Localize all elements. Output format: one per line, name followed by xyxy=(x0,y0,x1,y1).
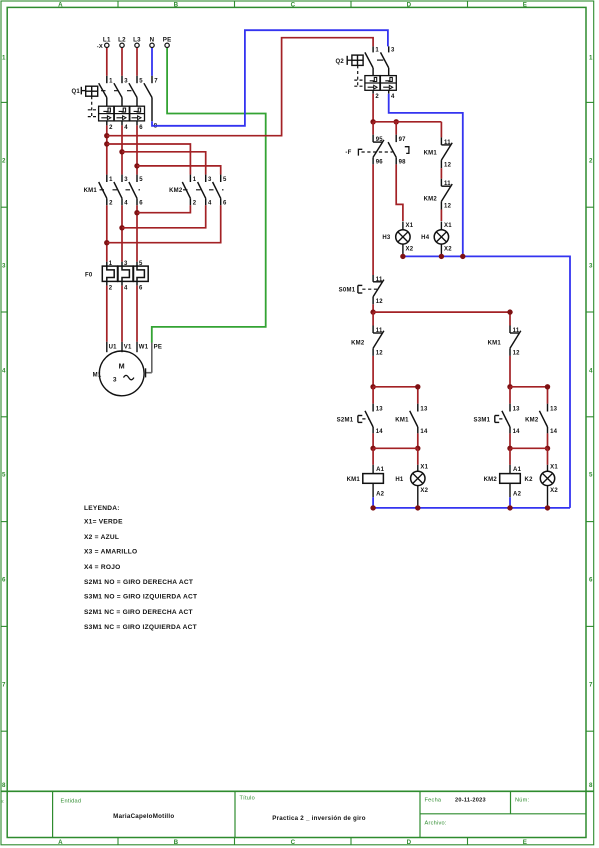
svg-text:4: 4 xyxy=(208,201,212,207)
svg-text:3: 3 xyxy=(124,177,128,183)
svg-text:95: 95 xyxy=(376,137,384,143)
wire Q2-4 neutral to lamp rail xyxy=(389,94,463,257)
svg-text:KM1: KM1 xyxy=(347,477,361,483)
svg-text:11: 11 xyxy=(444,140,451,146)
junction L2 to KM2-3 xyxy=(119,149,124,154)
svg-text:Q1: Q1 xyxy=(71,89,80,95)
wire KM1-14 to coil bar xyxy=(417,433,419,448)
auxiliary contact KM1 11-12 NC interlock xyxy=(488,326,521,357)
svg-text:6: 6 xyxy=(139,125,143,131)
svg-text:A2: A2 xyxy=(513,491,522,497)
svg-text:3: 3 xyxy=(589,262,593,269)
svg-text:A: A xyxy=(58,2,63,9)
svg-text:X2 = AZUL: X2 = AZUL xyxy=(84,534,119,541)
wire coil bar right xyxy=(510,447,548,449)
pushbutton S3M1 NO xyxy=(474,404,521,435)
junction left split right xyxy=(415,384,420,389)
svg-text:KM1: KM1 xyxy=(488,340,502,346)
svg-text:3: 3 xyxy=(113,376,117,383)
indicator lamp H3 xyxy=(382,222,413,257)
junction H4 rail xyxy=(439,254,444,259)
junction F 97 branch xyxy=(394,119,399,124)
junction L3 to KM2-5 xyxy=(134,163,139,168)
wire KM2-14 to coil bar right xyxy=(547,433,549,448)
wire KM1 interlock to right split xyxy=(509,356,511,387)
wire F0-2 to motor U1 xyxy=(106,286,108,342)
svg-text:E: E xyxy=(523,839,527,846)
svg-text:X4 = ROJO: X4 = ROJO xyxy=(84,564,121,571)
svg-text:4: 4 xyxy=(124,285,128,291)
svg-text:L3: L3 xyxy=(133,36,141,43)
indicator lamp K2 xyxy=(525,448,559,508)
junction coil bar left 1 xyxy=(370,446,375,451)
svg-text:11: 11 xyxy=(376,277,383,283)
junction L1 control tap xyxy=(104,133,109,138)
svg-text:Entidad: Entidad xyxy=(61,799,82,805)
svg-text:N: N xyxy=(150,36,155,43)
svg-text:KM2: KM2 xyxy=(424,196,438,202)
wire lamp neutral rail xyxy=(403,256,570,508)
wire L1 terminal to Q1 pin 1 xyxy=(106,48,108,76)
svg-text:KM2: KM2 xyxy=(169,188,183,194)
junction L1/KM2-6 xyxy=(104,240,109,245)
svg-text:6: 6 xyxy=(139,285,143,291)
svg-text:8: 8 xyxy=(589,782,593,789)
svg-text:5: 5 xyxy=(139,78,143,84)
svg-text:1: 1 xyxy=(2,54,6,61)
junction Q2 neutral rail xyxy=(460,254,465,259)
junction L3/KM2-2 xyxy=(134,210,139,215)
svg-text:a:: a: xyxy=(0,799,4,804)
circuit breaker Q1 xyxy=(71,76,158,131)
svg-text:1: 1 xyxy=(193,177,197,183)
svg-text:L1: L1 xyxy=(103,36,111,43)
svg-text:-F: -F xyxy=(345,150,351,156)
auxiliary contact KM2 11-12 NC xyxy=(424,179,453,210)
svg-text:S3M1 NO = GIRO IZQUIERDA ACT: S3M1 NO = GIRO IZQUIERDA ACT xyxy=(84,594,197,601)
svg-text:4: 4 xyxy=(589,367,593,374)
svg-text:14: 14 xyxy=(420,429,428,435)
terminal PE xyxy=(163,36,172,47)
svg-text:4: 4 xyxy=(124,125,128,131)
svg-text:A2: A2 xyxy=(376,491,385,497)
svg-text:1: 1 xyxy=(375,48,379,54)
svg-text:12: 12 xyxy=(376,350,384,356)
svg-text:7: 7 xyxy=(589,681,593,688)
svg-text:3: 3 xyxy=(391,48,395,54)
terminal strip -X xyxy=(97,44,103,50)
wire Q1-4 down L2 column xyxy=(121,125,123,174)
junction right split xyxy=(507,384,512,389)
svg-text:2: 2 xyxy=(109,201,113,207)
svg-text:KM1: KM1 xyxy=(395,417,409,423)
svg-text:5: 5 xyxy=(589,471,593,478)
svg-text:Practica 2 _ inversión de giro: Practica 2 _ inversión de giro xyxy=(272,815,365,822)
svg-text:X1: X1 xyxy=(444,223,452,229)
svg-text:1: 1 xyxy=(109,177,113,183)
svg-text:5: 5 xyxy=(2,471,6,478)
wire KM1-12 to KM2-11 xyxy=(440,168,442,179)
svg-text:H1: H1 xyxy=(395,477,404,483)
svg-text:D: D xyxy=(407,839,412,846)
contactor coil KM2 xyxy=(484,448,522,508)
svg-text:M: M xyxy=(119,361,125,370)
svg-text:C: C xyxy=(291,839,296,846)
svg-text:C: C xyxy=(291,2,296,9)
wire Q1-8 neutral to Q2 pin 3 xyxy=(152,30,388,126)
svg-text:Archivo:: Archivo: xyxy=(425,821,447,827)
terminal L1 xyxy=(103,36,111,47)
junction interlock node right xyxy=(507,309,512,314)
svg-text:14: 14 xyxy=(376,429,384,435)
svg-text:A1: A1 xyxy=(513,467,522,473)
wire bottom neutral rail xyxy=(373,507,570,509)
wire KM1-2 down to F0-1 xyxy=(106,205,108,261)
svg-text:4: 4 xyxy=(124,201,128,207)
svg-text:LEYENDA:: LEYENDA: xyxy=(84,505,120,512)
junction L1 to KM2-1 xyxy=(104,141,109,146)
svg-text:2: 2 xyxy=(109,285,113,291)
junction interlock node left xyxy=(370,309,375,314)
svg-text:H4: H4 xyxy=(421,235,430,241)
contactor KM1 power contacts xyxy=(84,175,144,207)
wire L2 terminal to Q1 pin 3 xyxy=(121,48,123,76)
svg-text:3: 3 xyxy=(208,177,212,183)
svg-text:KM2: KM2 xyxy=(525,417,539,423)
svg-text:X1: X1 xyxy=(420,465,428,471)
svg-text:7: 7 xyxy=(2,681,6,688)
auxiliary contact KM1 11-12 NC xyxy=(424,137,453,168)
wire F-96 down to S0M1 xyxy=(372,164,374,275)
contactor KM2 power contacts xyxy=(169,175,227,207)
svg-text:X2: X2 xyxy=(406,247,414,253)
wire left split bar xyxy=(373,387,418,404)
junction control phase node xyxy=(370,119,375,124)
svg-text:A: A xyxy=(58,839,63,846)
svg-text:PE: PE xyxy=(154,345,163,351)
indicator lamp H4 xyxy=(421,222,452,257)
svg-text:3: 3 xyxy=(2,262,6,269)
svg-text:S2M1: S2M1 xyxy=(337,417,354,423)
svg-text:X1: X1 xyxy=(406,223,414,229)
svg-text:L2: L2 xyxy=(118,36,126,43)
wire interlock node down left xyxy=(372,312,374,325)
svg-text:F0: F0 xyxy=(85,273,93,279)
thermal overload relay F0 xyxy=(85,261,148,291)
terminal L3 xyxy=(133,36,141,47)
junction rail K2 xyxy=(545,505,550,510)
svg-text:D: D xyxy=(407,2,412,9)
svg-text:1: 1 xyxy=(589,54,593,61)
pushbutton S2M1 NO xyxy=(337,404,384,435)
wire PE terminal to motor PE xyxy=(152,48,266,343)
svg-text:Q2: Q2 xyxy=(335,59,344,65)
svg-text:97: 97 xyxy=(399,137,407,143)
svg-text:6: 6 xyxy=(223,201,227,207)
wire F0-6 to motor W1 xyxy=(136,286,138,342)
svg-text:6: 6 xyxy=(2,576,6,583)
svg-text:M1: M1 xyxy=(93,373,102,379)
svg-text:S2M1 NO = GIRO DERECHA ACT: S2M1 NO = GIRO DERECHA ACT xyxy=(84,579,193,586)
wire S2M1-14 to coil bar xyxy=(372,433,374,448)
wire KM2 interlock to left split xyxy=(372,356,374,387)
svg-text:6: 6 xyxy=(139,201,143,207)
wire S3M1-14 to coil bar right xyxy=(509,433,511,448)
wire left split down xyxy=(372,387,374,404)
contactor coil KM1 xyxy=(347,448,385,508)
svg-text:2: 2 xyxy=(193,201,197,207)
svg-text:KM2: KM2 xyxy=(484,477,498,483)
svg-text:1: 1 xyxy=(109,78,113,84)
svg-text:E: E xyxy=(523,2,527,9)
wire L1 tap to Q2 pin 1 xyxy=(107,38,373,136)
auxiliary contact KM2 13-14 NO xyxy=(525,404,558,435)
svg-text:2: 2 xyxy=(109,125,113,131)
svg-text:96: 96 xyxy=(376,159,384,165)
svg-text:4: 4 xyxy=(2,367,6,374)
terminal N xyxy=(150,36,155,47)
svg-text:5: 5 xyxy=(223,177,227,183)
wire KM2-6 to L1 column xyxy=(107,205,221,242)
svg-text:11: 11 xyxy=(444,181,451,187)
svg-text:K2: K2 xyxy=(525,477,534,483)
svg-text:S3M1 NC = GIRO IZQUIERDA ACT: S3M1 NC = GIRO IZQUIERDA ACT xyxy=(84,624,197,631)
svg-text:H3: H3 xyxy=(382,235,391,241)
svg-text:6: 6 xyxy=(589,576,593,583)
svg-text:Núm:: Núm: xyxy=(515,798,530,804)
svg-text:S3M1: S3M1 xyxy=(474,417,491,423)
terminal L2 xyxy=(118,36,126,47)
svg-text:X3 = AMARILLO: X3 = AMARILLO xyxy=(84,549,137,556)
wire KM1-4 down to F0-3 xyxy=(121,205,123,261)
junction coil bar right 1 xyxy=(507,446,512,451)
wire F0-4 to motor V1 xyxy=(121,286,123,342)
svg-text:KM1: KM1 xyxy=(424,150,438,156)
wire interlock node to right branch xyxy=(373,312,510,325)
wire F-98 to lamp H3 xyxy=(396,164,403,221)
junction rail KM2 coil xyxy=(507,505,512,510)
wire S0M1-12 to interlock node xyxy=(372,304,374,312)
wire KM2-2 to L3 column xyxy=(137,205,190,212)
junction rail H1 xyxy=(415,505,420,510)
svg-text:11: 11 xyxy=(513,328,520,334)
svg-text:Título: Título xyxy=(240,796,256,802)
svg-text:U1: U1 xyxy=(109,345,118,351)
svg-text:B: B xyxy=(174,839,179,846)
wire L2 to KM2 pin 3 xyxy=(122,152,206,175)
svg-text:13: 13 xyxy=(376,407,384,413)
indicator lamp H1 xyxy=(395,448,428,508)
svg-text:12: 12 xyxy=(444,204,452,210)
wire control phase bus xyxy=(373,122,441,138)
svg-text:A1: A1 xyxy=(376,467,385,473)
svg-text:13: 13 xyxy=(513,407,521,413)
svg-text:X2: X2 xyxy=(550,488,558,494)
svg-text:MariaCapeloMotillo: MariaCapeloMotillo xyxy=(113,813,174,820)
svg-text:98: 98 xyxy=(399,159,407,165)
svg-text:2: 2 xyxy=(589,157,593,164)
svg-text:2: 2 xyxy=(2,157,6,164)
wire KM1-6 down to F0-5 xyxy=(136,205,138,261)
svg-text:20-11-2023: 20-11-2023 xyxy=(455,798,486,804)
circuit breaker Q2 xyxy=(335,46,396,99)
svg-text:W1: W1 xyxy=(139,345,149,351)
svg-text:X2: X2 xyxy=(420,488,428,494)
svg-text:-X: -X xyxy=(97,44,103,50)
junction rail KM1 coil xyxy=(370,505,375,510)
wire N terminal to Q1 pin 7 xyxy=(151,48,153,76)
wire right split bar xyxy=(510,387,548,404)
svg-text:PE: PE xyxy=(163,36,172,43)
junction coil bar right 2 xyxy=(545,446,550,451)
wire L3 to KM2 pin 5 xyxy=(137,166,221,175)
wire KM2-4 to L2 column xyxy=(122,205,206,228)
svg-text:8: 8 xyxy=(2,782,6,789)
svg-text:5: 5 xyxy=(139,177,143,183)
svg-text:X2: X2 xyxy=(444,247,452,253)
thermal relay contact -F 95-96 97-98 xyxy=(345,135,409,166)
motor M1 xyxy=(93,342,162,396)
junction right split right xyxy=(545,384,550,389)
svg-text:V1: V1 xyxy=(124,345,132,351)
svg-text:7: 7 xyxy=(154,78,158,84)
svg-text:S0M1: S0M1 xyxy=(339,288,356,294)
svg-text:3: 3 xyxy=(124,78,128,84)
svg-text:Fecha: Fecha xyxy=(425,798,442,804)
svg-text:13: 13 xyxy=(420,407,428,413)
svg-text:11: 11 xyxy=(376,328,383,334)
junction H3 rail xyxy=(400,254,405,259)
svg-text:4: 4 xyxy=(391,94,395,100)
svg-text:12: 12 xyxy=(513,350,521,356)
wire Q1-6 down L3 column xyxy=(136,125,138,174)
wire coil bar left xyxy=(373,447,418,449)
wire right split down xyxy=(509,387,511,404)
wire L3 terminal to Q1 pin 5 xyxy=(136,48,138,76)
svg-text:12: 12 xyxy=(376,299,384,305)
svg-text:12: 12 xyxy=(444,162,452,168)
pushbutton S0M1 NC xyxy=(339,275,384,305)
legend text xyxy=(84,505,197,631)
svg-text:2: 2 xyxy=(375,94,379,100)
svg-text:B: B xyxy=(174,2,179,9)
auxiliary contact KM2 11-12 NC interlock xyxy=(351,326,384,357)
svg-text:KM2: KM2 xyxy=(351,340,365,346)
svg-text:X1= VERDE: X1= VERDE xyxy=(84,519,123,526)
wire L1 to KM2 pin 1 xyxy=(107,144,191,175)
svg-text:14: 14 xyxy=(513,429,521,435)
svg-text:13: 13 xyxy=(550,407,558,413)
svg-text:S2M1 NC = GIRO DERECHA ACT: S2M1 NC = GIRO DERECHA ACT xyxy=(84,609,193,616)
title block xyxy=(0,791,593,837)
junction left split xyxy=(370,384,375,389)
wire Q2-2 to control junction xyxy=(372,94,374,122)
svg-text:X1: X1 xyxy=(550,465,558,471)
svg-text:KM1: KM1 xyxy=(84,188,98,194)
junction L2/KM2-4 xyxy=(119,225,124,230)
junction coil bar left 2 xyxy=(415,446,420,451)
wire Q1-2 down L1 column xyxy=(106,125,108,174)
wire KM2-12 to lamp H4 xyxy=(440,210,442,222)
svg-text:14: 14 xyxy=(550,429,558,435)
auxiliary contact KM1 13-14 NO xyxy=(395,404,428,435)
